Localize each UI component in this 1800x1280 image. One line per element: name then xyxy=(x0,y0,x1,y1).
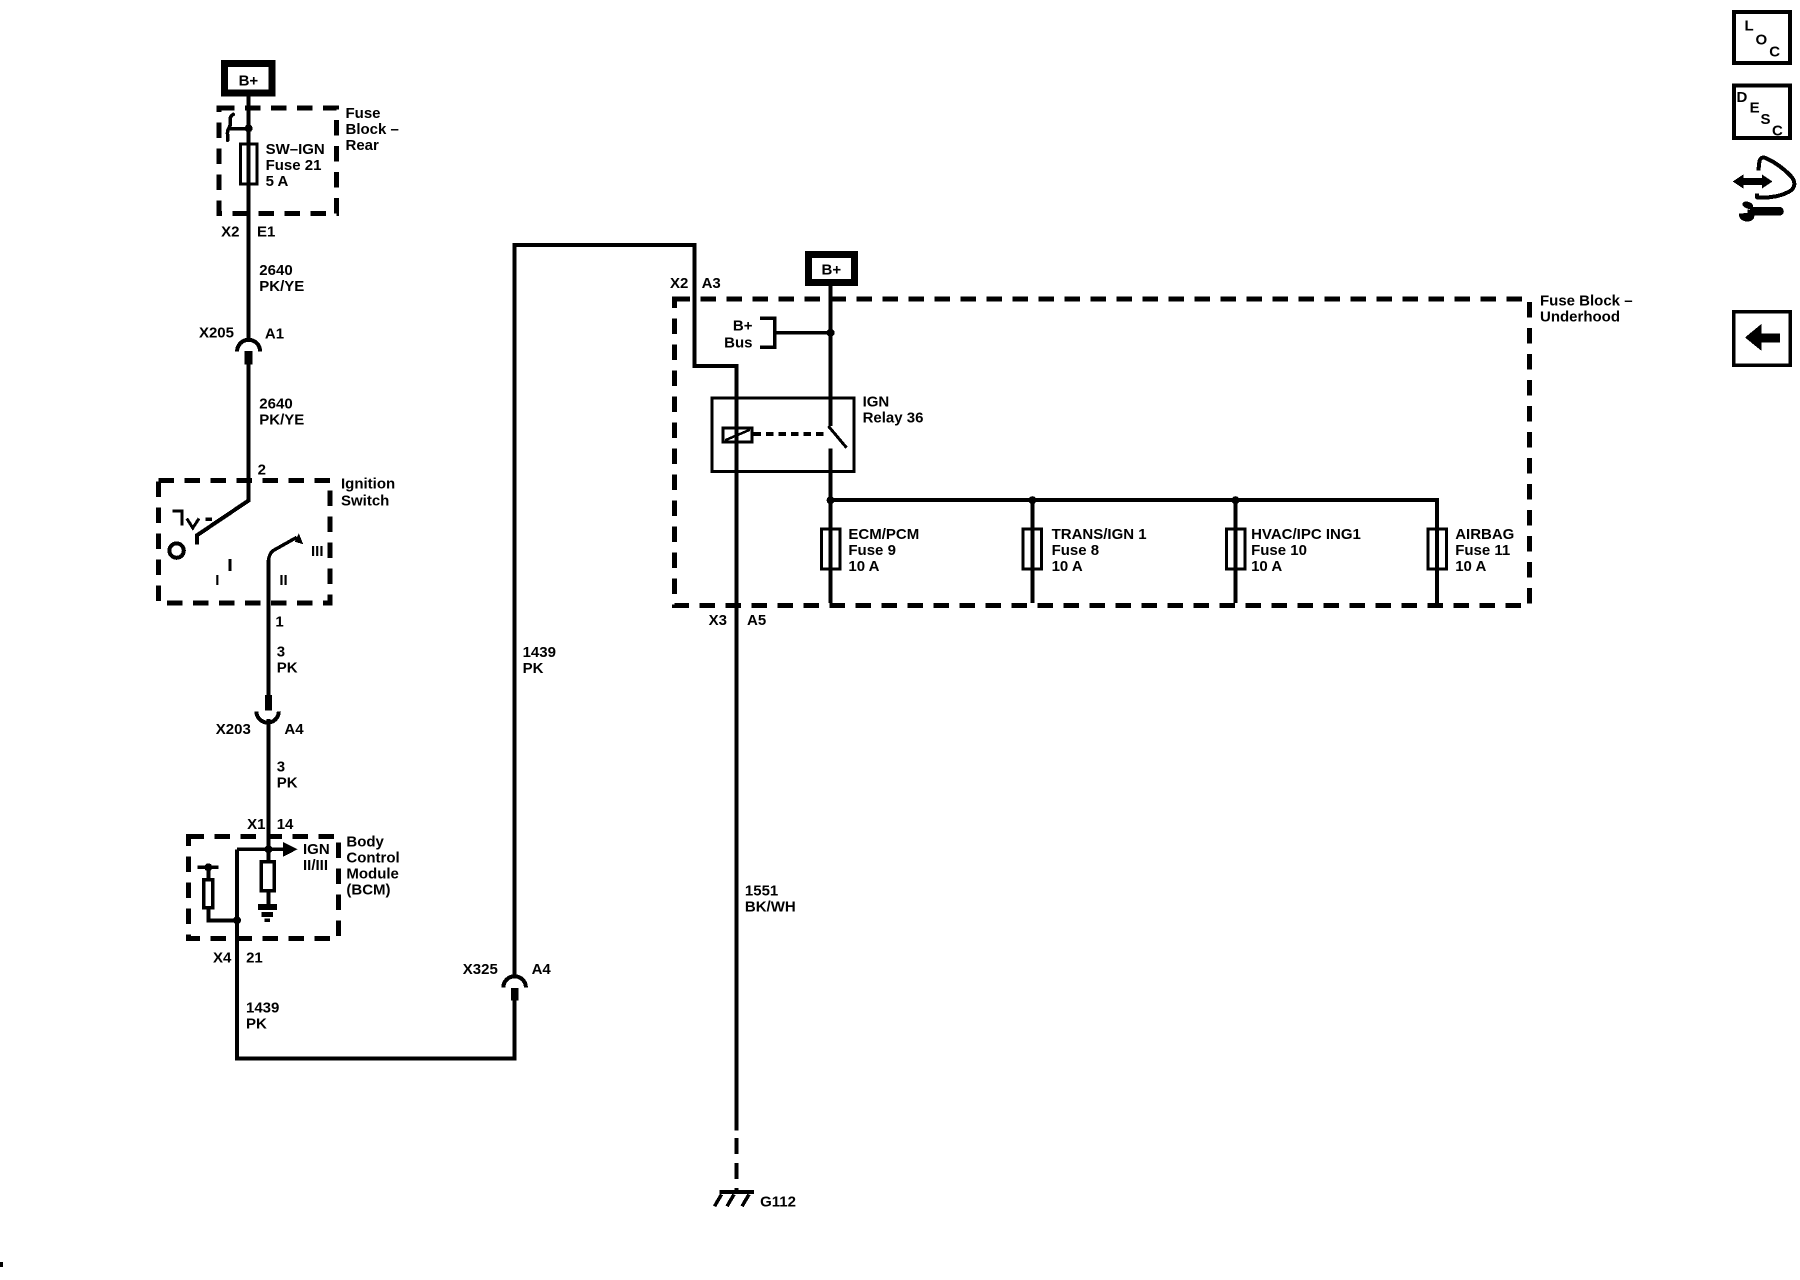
connector X325 A4 xyxy=(463,961,552,1001)
svg-text:SW–IGN: SW–IGN xyxy=(266,141,325,158)
DESC icon box xyxy=(1734,86,1790,140)
svg-text:Underhood: Underhood xyxy=(1540,309,1620,326)
svg-text:ECM/PCM: ECM/PCM xyxy=(848,526,919,543)
svg-text:II/III: II/III xyxy=(303,857,328,874)
svg-text:Fuse 10: Fuse 10 xyxy=(1251,542,1307,559)
svg-text:Fuse 8: Fuse 8 xyxy=(1052,542,1100,559)
fuse block underhood dashed box xyxy=(675,299,1530,606)
label Ignition Switch xyxy=(341,476,395,510)
pin labels X2 | E1 xyxy=(221,224,275,241)
edge artifact mark bottom left xyxy=(0,1262,3,1267)
wire label 1439 PK (lower left) xyxy=(246,1000,279,1033)
label AIRBAG Fuse 11 10 A xyxy=(1455,526,1514,575)
ground G112 xyxy=(715,1192,796,1211)
wire label 3 PK (lower) xyxy=(277,759,298,792)
svg-text:10 A: 10 A xyxy=(1251,558,1282,575)
svg-text:X325: X325 xyxy=(463,961,498,978)
svg-text:X3: X3 xyxy=(709,612,727,629)
switch motion arrow xyxy=(269,533,304,560)
service icon double arrow xyxy=(1733,174,1773,188)
connector X203 A4 xyxy=(216,695,304,738)
svg-text:Body: Body xyxy=(346,834,384,851)
pin labels X1 | 14 xyxy=(247,816,294,833)
bus tap clip symbol xyxy=(227,114,248,140)
label SW-IGN Fuse 21 5 A xyxy=(266,141,325,190)
svg-text:10 A: 10 A xyxy=(1455,558,1486,575)
svg-text:B+: B+ xyxy=(733,318,753,335)
svg-text:L: L xyxy=(1745,18,1754,35)
svg-text:E: E xyxy=(1750,100,1760,117)
label TRANS/IGN 1 Fuse 8 10 A xyxy=(1052,526,1147,575)
pin labels X4 | 21 xyxy=(213,950,263,967)
svg-text:X203: X203 xyxy=(216,721,251,738)
label Fuse Block - Rear xyxy=(346,105,399,154)
svg-text:X1: X1 xyxy=(247,816,265,833)
svg-text:Fuse 9: Fuse 9 xyxy=(848,542,896,559)
back arrow icon box xyxy=(1734,312,1790,365)
label IGN Relay 36 xyxy=(863,394,924,427)
svg-text:X4: X4 xyxy=(213,950,232,967)
relay linkage dashed line xyxy=(754,432,827,436)
svg-text:AIRBAG: AIRBAG xyxy=(1455,526,1514,543)
svg-text:10 A: 10 A xyxy=(848,558,879,575)
wire label 1551 BK/WH xyxy=(745,883,796,916)
label Fuse Block - Underhood xyxy=(1540,293,1633,326)
IGN II/III arrow xyxy=(237,841,330,874)
svg-text:10 A: 10 A xyxy=(1052,558,1083,575)
svg-text:I: I xyxy=(215,572,219,589)
svg-text:Rear: Rear xyxy=(346,137,380,154)
svg-text:14: 14 xyxy=(277,816,294,833)
svg-text:S: S xyxy=(1761,111,1771,128)
svg-text:III: III xyxy=(311,543,324,560)
svg-text:Bus: Bus xyxy=(724,335,752,352)
svg-text:1439: 1439 xyxy=(246,1000,279,1017)
fuse AIRBAG Fuse 11 xyxy=(1428,529,1447,569)
svg-text:Module: Module xyxy=(346,866,399,883)
svg-text:Block –: Block – xyxy=(346,121,399,138)
svg-text:5 A: 5 A xyxy=(266,173,289,190)
svg-text:2640: 2640 xyxy=(259,396,292,413)
svg-text:Fuse Block –: Fuse Block – xyxy=(1540,293,1633,310)
svg-text:O: O xyxy=(1756,31,1768,48)
position tick I xyxy=(228,559,231,571)
wire BCM branch down to corner and right to X325 xyxy=(237,849,515,1058)
svg-text:PK: PK xyxy=(246,1016,267,1033)
wire label 3 PK (upper) xyxy=(277,644,298,677)
junction node relay output xyxy=(827,496,835,504)
svg-text:PK: PK xyxy=(523,660,544,677)
svg-text:PK: PK xyxy=(277,775,298,792)
svg-text:3: 3 xyxy=(277,759,285,776)
svg-text:IGN: IGN xyxy=(863,394,890,411)
svg-text:X2: X2 xyxy=(221,224,239,241)
wire through hvac fuse xyxy=(1234,500,1238,603)
svg-text:Relay 36: Relay 36 xyxy=(863,410,924,427)
ignition switch detent mark xyxy=(173,511,213,528)
svg-text:C: C xyxy=(1772,123,1783,140)
svg-text:1551: 1551 xyxy=(745,883,778,900)
fuse TRANS/IGN 1 Fuse 8 xyxy=(1023,529,1042,569)
svg-text:A5: A5 xyxy=(747,612,766,629)
wire from X203 to BCM xyxy=(267,719,271,849)
wire from B+ down to relay switch xyxy=(829,286,833,426)
wire label 2640 PK/YE (lower) xyxy=(259,396,304,429)
svg-text:B+: B+ xyxy=(822,261,842,278)
ignition switch pivot circle xyxy=(169,543,183,557)
svg-text:TRANS/IGN 1: TRANS/IGN 1 xyxy=(1052,526,1147,543)
svg-text:II: II xyxy=(279,572,287,589)
wire through trans fuse xyxy=(1030,500,1034,603)
svg-text:(BCM): (BCM) xyxy=(346,882,390,899)
connector X205 A1 xyxy=(199,325,284,365)
svg-text:Switch: Switch xyxy=(341,493,389,510)
fuse SW-IGN Fuse 21 5A xyxy=(240,144,257,184)
fuse HVAC/IPC ING1 Fuse 10 xyxy=(1226,529,1245,569)
LOC icon box xyxy=(1734,12,1790,63)
svg-text:IGN: IGN xyxy=(303,841,330,858)
dashed wire to ground xyxy=(735,1138,739,1191)
svg-text:X2: X2 xyxy=(670,275,688,292)
svg-text:PK: PK xyxy=(277,660,298,677)
svg-text:Fuse: Fuse xyxy=(346,105,381,122)
wire from X325 up over to relay coil and down to ground xyxy=(515,245,737,1130)
IGN relay 36 box xyxy=(712,398,854,472)
wire from B+ down to connector X205 xyxy=(247,97,251,341)
svg-text:B+: B+ xyxy=(239,72,259,89)
B+ Bus tap xyxy=(724,318,834,352)
svg-text:Control: Control xyxy=(346,850,399,867)
svg-text:2: 2 xyxy=(258,462,266,479)
body control module dashed box xyxy=(189,836,339,938)
resistor (BCM left) stub and node xyxy=(197,863,218,879)
junction node at BCM input xyxy=(265,845,273,853)
wire from left resistor to output junction xyxy=(208,909,237,920)
svg-text:1439: 1439 xyxy=(523,644,556,661)
svg-text:21: 21 xyxy=(246,950,263,967)
svg-text:A4: A4 xyxy=(532,961,552,978)
junction node hvac fuse xyxy=(1232,496,1240,504)
relay switch blade xyxy=(828,426,846,448)
svg-text:1: 1 xyxy=(275,614,283,631)
svg-text:A1: A1 xyxy=(265,326,284,343)
fuse block rear dashed box xyxy=(219,108,337,214)
wire from relay switch through ECM fuse xyxy=(829,448,833,603)
svg-text:C: C xyxy=(1769,43,1780,60)
svg-text:G112: G112 xyxy=(760,1194,796,1211)
junction node at bus tap xyxy=(245,124,253,132)
resistor (BCM left) xyxy=(204,880,213,908)
pin labels X2 | A3 xyxy=(670,275,721,292)
svg-text:Ignition: Ignition xyxy=(341,476,395,493)
wire label 1439 PK (riser) xyxy=(523,644,556,677)
svg-text:A3: A3 xyxy=(702,275,721,292)
ground symbol (BCM internal) xyxy=(258,907,277,920)
ignition switch dashed box xyxy=(158,480,330,603)
resistor (BCM center) xyxy=(261,849,274,904)
junction node at BCM output xyxy=(233,916,241,924)
battery feed symbol B+ (underhood) xyxy=(808,254,854,282)
svg-text:D: D xyxy=(1737,89,1748,106)
relay coil xyxy=(723,428,752,442)
pin labels X3 | A5 xyxy=(709,612,767,629)
svg-text:HVAC/IPC ING1: HVAC/IPC ING1 xyxy=(1251,526,1361,543)
junction node trans fuse xyxy=(1028,496,1036,504)
svg-text:Fuse 21: Fuse 21 xyxy=(266,157,322,174)
fuse ECM/PCM Fuse 9 xyxy=(821,529,840,569)
service icon wrench xyxy=(1738,200,1780,223)
wire from switch position II down to X203 xyxy=(267,560,271,711)
label ECM/PCM Fuse 9 10 A xyxy=(848,526,919,575)
service icon swoosh arrow xyxy=(1757,158,1794,198)
svg-text:2640: 2640 xyxy=(259,262,292,279)
svg-text:BK/WH: BK/WH xyxy=(745,899,796,916)
svg-text:Fuse 11: Fuse 11 xyxy=(1455,542,1510,559)
svg-text:PK/YE: PK/YE xyxy=(259,278,304,295)
label Body Control Module (BCM) xyxy=(346,834,399,899)
wire label 2640 PK/YE (upper) xyxy=(259,262,304,295)
wire from X205 to ignition switch xyxy=(197,365,249,545)
svg-text:PK/YE: PK/YE xyxy=(259,412,304,429)
svg-text:A4: A4 xyxy=(284,721,304,738)
svg-text:3: 3 xyxy=(277,644,285,661)
bus wire to airbag fuse xyxy=(831,500,1438,603)
svg-text:E1: E1 xyxy=(257,224,275,241)
svg-text:X205: X205 xyxy=(199,325,234,342)
label HVAC/IPC ING1 Fuse 10 10 A xyxy=(1251,526,1361,575)
battery feed symbol B+ (top left) xyxy=(225,64,273,94)
